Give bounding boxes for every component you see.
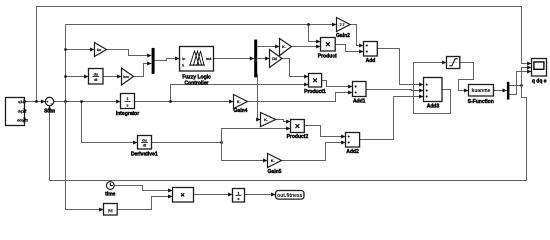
- add Add2: [346, 133, 360, 155]
- product Product3 (bottom): [173, 188, 194, 203]
- svg-text:|u|: |u|: [108, 209, 112, 213]
- node e-dudt: [64, 75, 67, 78]
- wire integrator out to Gain4: [135, 101, 234, 103]
- wire deriv to Gain5: [222, 143, 268, 161]
- svg-text:Add: Add: [366, 58, 376, 64]
- svg-text:-7.7: -7.7: [338, 23, 344, 27]
- wire e to gain ke: [66, 49, 95, 51]
- svg-text:Controller: Controller: [185, 80, 209, 86]
- node e-deriv1: [80, 100, 83, 103]
- svg-text:Add1: Add1: [353, 98, 366, 104]
- svg-text:Sum: Sum: [44, 109, 55, 115]
- product Product2: [287, 120, 309, 141]
- wire kec out to mux: [134, 64, 152, 77]
- wire Product out to Add: [335, 45, 363, 52]
- svg-text:s: s: [127, 103, 129, 107]
- wire e to Derivative1: [82, 102, 138, 143]
- wire Add1 out to Add3 in2: [366, 90, 423, 91]
- saturation: [447, 57, 460, 69]
- wire abs out to product3: [117, 197, 172, 210]
- wire Derivative1 out: [152, 142, 222, 144]
- svg-text:time: time: [105, 192, 116, 198]
- clock time: [105, 182, 116, 198]
- wire demux out2 to gain Cki: [257, 58, 269, 60]
- wire Sum output main error line: [54, 101, 121, 103]
- svg-text:out: out: [206, 57, 212, 61]
- wire clock out to product3: [114, 186, 172, 191]
- wire kuanme out to mux2: [493, 90, 506, 92]
- wire Gain5 out to Add2 in2: [282, 143, 346, 161]
- wire e up branch to top rail: [66, 25, 337, 102]
- derivative Derivative1: [131, 136, 158, 158]
- svg-text:Product2: Product2: [287, 134, 309, 140]
- derivative du/dt: [89, 69, 104, 85]
- add Add3: [424, 78, 443, 110]
- node deriv split: [220, 141, 223, 144]
- svg-text:Product1: Product1: [304, 89, 326, 95]
- svg-text:Gain4: Gain4: [234, 108, 248, 114]
- svg-text:ke: ke: [97, 48, 101, 52]
- svg-text:Cki: Cki: [272, 57, 278, 61]
- product Product1: [304, 74, 326, 96]
- wire gain Cki out to Product1: [282, 59, 308, 77]
- gain Ku (upper): [280, 39, 292, 56]
- svg-text:Derivative1: Derivative1: [131, 151, 158, 157]
- wire Add2 out to Add3 in3: [360, 97, 424, 140]
- wire gain Ku out to Product: [292, 46, 321, 48]
- sum Sum: [44, 97, 55, 114]
- node q1d branch: [35, 100, 38, 103]
- wire mux to fuzzy: [155, 59, 180, 61]
- svg-text:kuanme: kuanme: [472, 88, 491, 94]
- add Add1: [353, 82, 367, 105]
- svg-text:Add3: Add3: [427, 104, 440, 110]
- wire Product2 out to Add2 in1: [304, 126, 345, 137]
- wire demux out1 to gain Ku: [257, 46, 279, 48]
- gain Gain5: [268, 154, 282, 175]
- svg-text:1: 1: [127, 97, 129, 101]
- source block q1d/dq1d/ddq1d: [6, 98, 28, 126]
- svg-text:Integrator: Integrator: [116, 111, 139, 117]
- wire product3 out to 1/s: [194, 194, 233, 196]
- wire Product1 out to Add1 in1: [322, 81, 353, 87]
- svg-text:−: −: [50, 101, 53, 106]
- scope q dq e: [532, 59, 547, 85]
- wire q1d feedback to scope (top loop): [37, 7, 532, 102]
- node e rail product: [307, 23, 310, 26]
- wire Gain2 out to Add: [350, 25, 363, 46]
- integrator 1/s (bottom): [233, 189, 245, 203]
- svg-text:Add2: Add2: [346, 149, 359, 155]
- outport out.fitness: [276, 191, 305, 200]
- wire deriv to Product2 in2: [222, 129, 291, 143]
- svg-text:du: du: [142, 139, 146, 143]
- wire demux out3 down to gain Kd: [258, 74, 261, 120]
- wire 1/s out to out.fitness: [245, 194, 276, 196]
- svg-text:in: in: [182, 57, 185, 61]
- wire q1d source to Sum: [25, 101, 46, 103]
- add Add: [364, 42, 378, 65]
- wire dq to scope in3: [509, 72, 531, 95]
- svg-text:Gain5: Gain5: [268, 169, 282, 175]
- svg-text:kec: kec: [123, 75, 129, 79]
- svg-text:S-Function: S-Function: [468, 99, 494, 105]
- wire Add out to Add3 in1: [377, 49, 423, 85]
- mux: [152, 48, 155, 74]
- svg-text:Product: Product: [318, 54, 337, 60]
- svg-text:1: 1: [238, 191, 240, 195]
- product Product: [318, 38, 337, 60]
- wire q out of mux2: [509, 85, 521, 87]
- fuzzy logic controller U1: [180, 47, 214, 87]
- node q split: [520, 84, 523, 87]
- svg-text:Gain2: Gain2: [336, 33, 350, 39]
- wire e rail down to Product in1: [309, 25, 321, 42]
- wire gain Kd out to Product2 in1: [276, 120, 291, 122]
- node int-e branch: [169, 100, 172, 103]
- integrator: [116, 94, 139, 118]
- wire fuzzy to demux: [214, 58, 254, 60]
- wire Saturation out to kuanme: [459, 63, 474, 91]
- gain Gain2: [336, 18, 350, 39]
- svg-text:du: du: [94, 72, 98, 76]
- wire int-e branch to Product1 in2: [171, 85, 309, 102]
- svg-text:+: +: [46, 99, 49, 104]
- wire ke out to mux: [107, 50, 152, 56]
- demux: [254, 40, 257, 78]
- abs |u|: [104, 204, 118, 216]
- wire e down to Abs: [66, 102, 104, 210]
- s-function kuanme: [468, 85, 494, 106]
- node e-ke: [64, 48, 67, 51]
- wire e to derivative du/dt: [66, 76, 89, 78]
- svg-text:out.fitness: out.fitness: [277, 193, 302, 199]
- wire q to scope in2: [522, 68, 532, 86]
- node e rail: [64, 100, 67, 103]
- wire q feedback to Sum: [50, 86, 527, 181]
- svg-text:s: s: [238, 197, 240, 201]
- gain Kd (no label): [261, 113, 276, 127]
- wire Add3 out wrap to Saturation: [414, 63, 451, 114]
- gain ke: [95, 43, 107, 57]
- mux2 (scope mux): [507, 82, 510, 100]
- gain Cki (lower): [270, 50, 283, 68]
- gain Gain4: [234, 95, 248, 115]
- gain kec: [122, 68, 134, 85]
- svg-text:q dq e: q dq e: [532, 78, 547, 84]
- wire du/dt out to kec: [104, 76, 122, 78]
- wire Gain4 out to Add1 in2: [248, 93, 353, 102]
